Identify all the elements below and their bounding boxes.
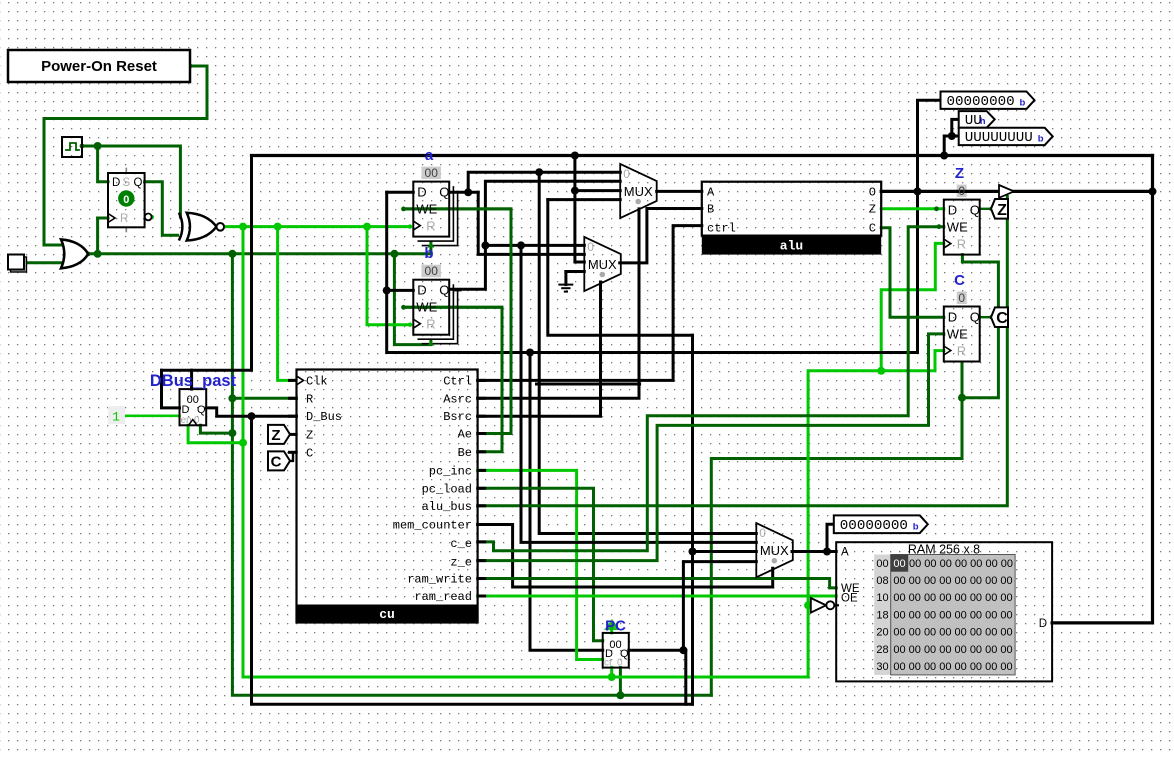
svg-text:Bsrc: Bsrc [443, 410, 472, 424]
svg-text:ct: ct [604, 658, 612, 669]
svg-text:D: D [417, 283, 426, 298]
svg-text:C: C [306, 446, 313, 460]
svg-text:00 00 00 00 00 00 00 00: 00 00 00 00 00 00 00 00 [893, 609, 1012, 621]
svg-text:Power-On Reset: Power-On Reset [41, 58, 157, 75]
svg-text:Q: Q [439, 185, 449, 200]
svg-text:D_Bus: D_Bus [306, 410, 342, 424]
svg-text:b: b [1038, 134, 1044, 145]
svg-text:MUX: MUX [624, 184, 653, 199]
svg-text:C: C [996, 310, 1008, 327]
svg-text:MUX: MUX [760, 543, 789, 558]
svg-text:D: D [417, 185, 426, 200]
svg-text:Q: Q [970, 310, 980, 325]
svg-text:00 00 00 00 00 00 00 00: 00 00 00 00 00 00 00 00 [893, 592, 1012, 604]
svg-text:0: 0 [123, 194, 129, 206]
svg-text:D: D [948, 203, 957, 218]
svg-text:b: b [913, 522, 919, 533]
svg-text:RAM 256 x 8: RAM 256 x 8 [908, 543, 980, 557]
svg-text:alu_bus: alu_bus [422, 500, 472, 514]
svg-text:b: b [424, 245, 433, 262]
svg-text:c_e: c_e [450, 537, 472, 551]
svg-text:Z: Z [869, 203, 876, 217]
svg-text:B: B [707, 203, 714, 217]
svg-text:pc_load: pc_load [422, 482, 472, 496]
svg-text:pc_inc: pc_inc [429, 464, 472, 478]
svg-text:Q: Q [970, 203, 980, 218]
svg-text:OE: OE [841, 592, 858, 604]
svg-text:30: 30 [876, 661, 888, 673]
svg-text:h: h [980, 116, 986, 127]
svg-text:00: 00 [425, 264, 439, 278]
svg-text:WE: WE [416, 202, 437, 217]
svg-text:00 00 00 00 00 00 00 00: 00 00 00 00 00 00 00 00 [893, 661, 1012, 673]
svg-text:00 00 00 00 00 00 00 00: 00 00 00 00 00 00 00 00 [893, 575, 1012, 587]
svg-text:Clk: Clk [306, 374, 328, 388]
svg-text:20: 20 [876, 627, 888, 639]
svg-text:00: 00 [425, 166, 439, 180]
svg-text:28: 28 [876, 644, 888, 656]
svg-text:Z: Z [306, 428, 313, 442]
svg-text:alu: alu [780, 239, 803, 254]
svg-text:R: R [426, 219, 435, 234]
svg-text:C: C [954, 272, 965, 289]
svg-text:C: C [271, 453, 282, 470]
svg-text:Z: Z [271, 427, 280, 444]
svg-text:Asrc: Asrc [443, 392, 472, 406]
svg-text:10: 10 [876, 592, 888, 604]
svg-text:0: 0 [958, 184, 965, 198]
svg-text:Z: Z [997, 202, 1007, 219]
svg-text:PC: PC [605, 618, 626, 635]
svg-text:b: b [1020, 97, 1026, 108]
svg-text:z_e: z_e [450, 556, 472, 570]
svg-text:R: R [957, 344, 966, 359]
svg-text:R: R [306, 392, 313, 406]
svg-text:cu: cu [379, 607, 395, 622]
svg-text:1: 1 [112, 410, 120, 425]
svg-text:R: R [120, 213, 128, 225]
svg-text:00000000: 00000000 [947, 94, 1015, 110]
svg-text:ram_read: ram_read [414, 590, 472, 604]
svg-text:00: 00 [893, 558, 905, 570]
svg-text:00 00 00 00 00 00 00: 00 00 00 00 00 00 00 [909, 558, 1013, 570]
svg-text:mem_counter: mem_counter [393, 519, 472, 533]
svg-text:ram_write: ram_write [407, 573, 472, 587]
svg-text:00000000: 00000000 [840, 518, 908, 534]
svg-text:00 00 00 00 00 00 00 00: 00 00 00 00 00 00 00 00 [893, 627, 1012, 639]
svg-text:Ae: Ae [458, 428, 472, 442]
svg-text:Ctrl: Ctrl [443, 374, 472, 388]
svg-text:R: R [426, 317, 435, 332]
svg-text:WE: WE [947, 327, 968, 342]
svg-text:0: 0 [587, 240, 594, 254]
svg-text:A: A [841, 547, 849, 559]
svg-text:Q: Q [439, 283, 449, 298]
svg-text:0: 0 [623, 167, 630, 181]
svg-text:Be: Be [458, 446, 472, 460]
svg-text:08: 08 [876, 575, 888, 587]
svg-text:MUX: MUX [588, 257, 617, 272]
svg-text:0: 0 [759, 526, 766, 540]
svg-text:00 00 00 00 00 00 00 00: 00 00 00 00 00 00 00 00 [893, 644, 1012, 656]
svg-text:R: R [957, 237, 966, 252]
svg-text:C: C [869, 222, 876, 236]
svg-text:0: 0 [617, 658, 623, 669]
svg-text:ctrl: ctrl [707, 222, 736, 236]
svg-text:Z: Z [955, 165, 964, 182]
svg-text:O: O [869, 185, 876, 199]
svg-text:00: 00 [876, 558, 888, 570]
svg-text:D: D [948, 310, 957, 325]
svg-text:WE: WE [947, 220, 968, 235]
svg-text:D: D [1039, 618, 1047, 630]
svg-text:a: a [425, 147, 434, 164]
svg-text:0: 0 [958, 291, 965, 305]
svg-text:D: D [112, 177, 120, 189]
svg-text:Q: Q [134, 177, 143, 189]
svg-text:18: 18 [876, 609, 888, 621]
svg-text:A: A [707, 185, 715, 199]
svg-text:UUUUUUUU: UUUUUUUU [965, 130, 1033, 146]
svg-text:S: S [123, 177, 131, 189]
svg-text:DBus_past: DBus_past [150, 372, 237, 390]
svg-text:WE: WE [416, 300, 437, 315]
